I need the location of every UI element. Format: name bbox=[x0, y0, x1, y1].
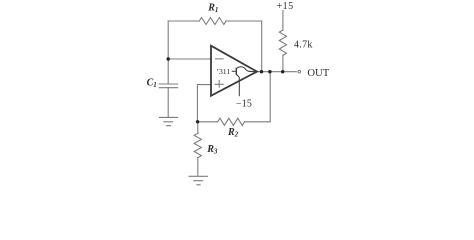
node A (inverting input junction) bbox=[167, 57, 170, 60]
svg-text:−15: −15 bbox=[236, 98, 252, 109]
wire node to R2 bbox=[197, 121, 217, 123]
node C (output/R1) bbox=[260, 70, 263, 73]
svg-text:OUT: OUT bbox=[307, 68, 329, 79]
minus input symbol bbox=[215, 58, 224, 60]
output transistor base lead bbox=[232, 70, 236, 72]
wire R2 right to output bbox=[245, 72, 271, 122]
svg-text:’311: ’311 bbox=[216, 67, 230, 76]
wire from non-inverting input bbox=[197, 85, 210, 122]
ground (below C1) bbox=[159, 117, 177, 125]
resistor R3 bbox=[194, 133, 201, 157]
wire output line bbox=[257, 71, 296, 73]
wire top left segment bbox=[168, 20, 199, 22]
wire top right segment bbox=[226, 20, 262, 22]
wire right vertical of R1 loop bbox=[261, 21, 263, 72]
wire node to R3 bbox=[197, 122, 199, 134]
output terminal circle bbox=[298, 70, 301, 73]
output transistor base bar bbox=[235, 68, 237, 75]
capacitor C1 bbox=[159, 84, 178, 88]
node D (output/R2) bbox=[268, 70, 271, 73]
output transistor collector curve bbox=[237, 67, 257, 72]
wire below C1 bbox=[167, 88, 169, 118]
resistor R1 bbox=[199, 18, 226, 25]
wire 4.7k to output node bbox=[282, 55, 284, 71]
svg-text:4.7k: 4.7k bbox=[294, 40, 313, 51]
node B (R2/R3 junction) bbox=[196, 120, 199, 123]
svg-text:+15: +15 bbox=[277, 1, 294, 12]
wire left vertical bbox=[167, 21, 169, 84]
op-amp U1 comparator '311 bbox=[211, 46, 257, 97]
resistor R2 bbox=[218, 118, 245, 125]
resistor 4.7k bbox=[279, 30, 286, 55]
node E (output/4.7k) bbox=[281, 70, 284, 73]
plus input symbol bbox=[215, 80, 224, 88]
wire +15 supply bbox=[282, 11, 284, 31]
wire R3 to ground bbox=[197, 158, 199, 177]
output transistor emitter, -15 pin bbox=[237, 75, 240, 97]
wire to inverting input bbox=[168, 58, 210, 60]
ground (below R3) bbox=[189, 176, 207, 185]
